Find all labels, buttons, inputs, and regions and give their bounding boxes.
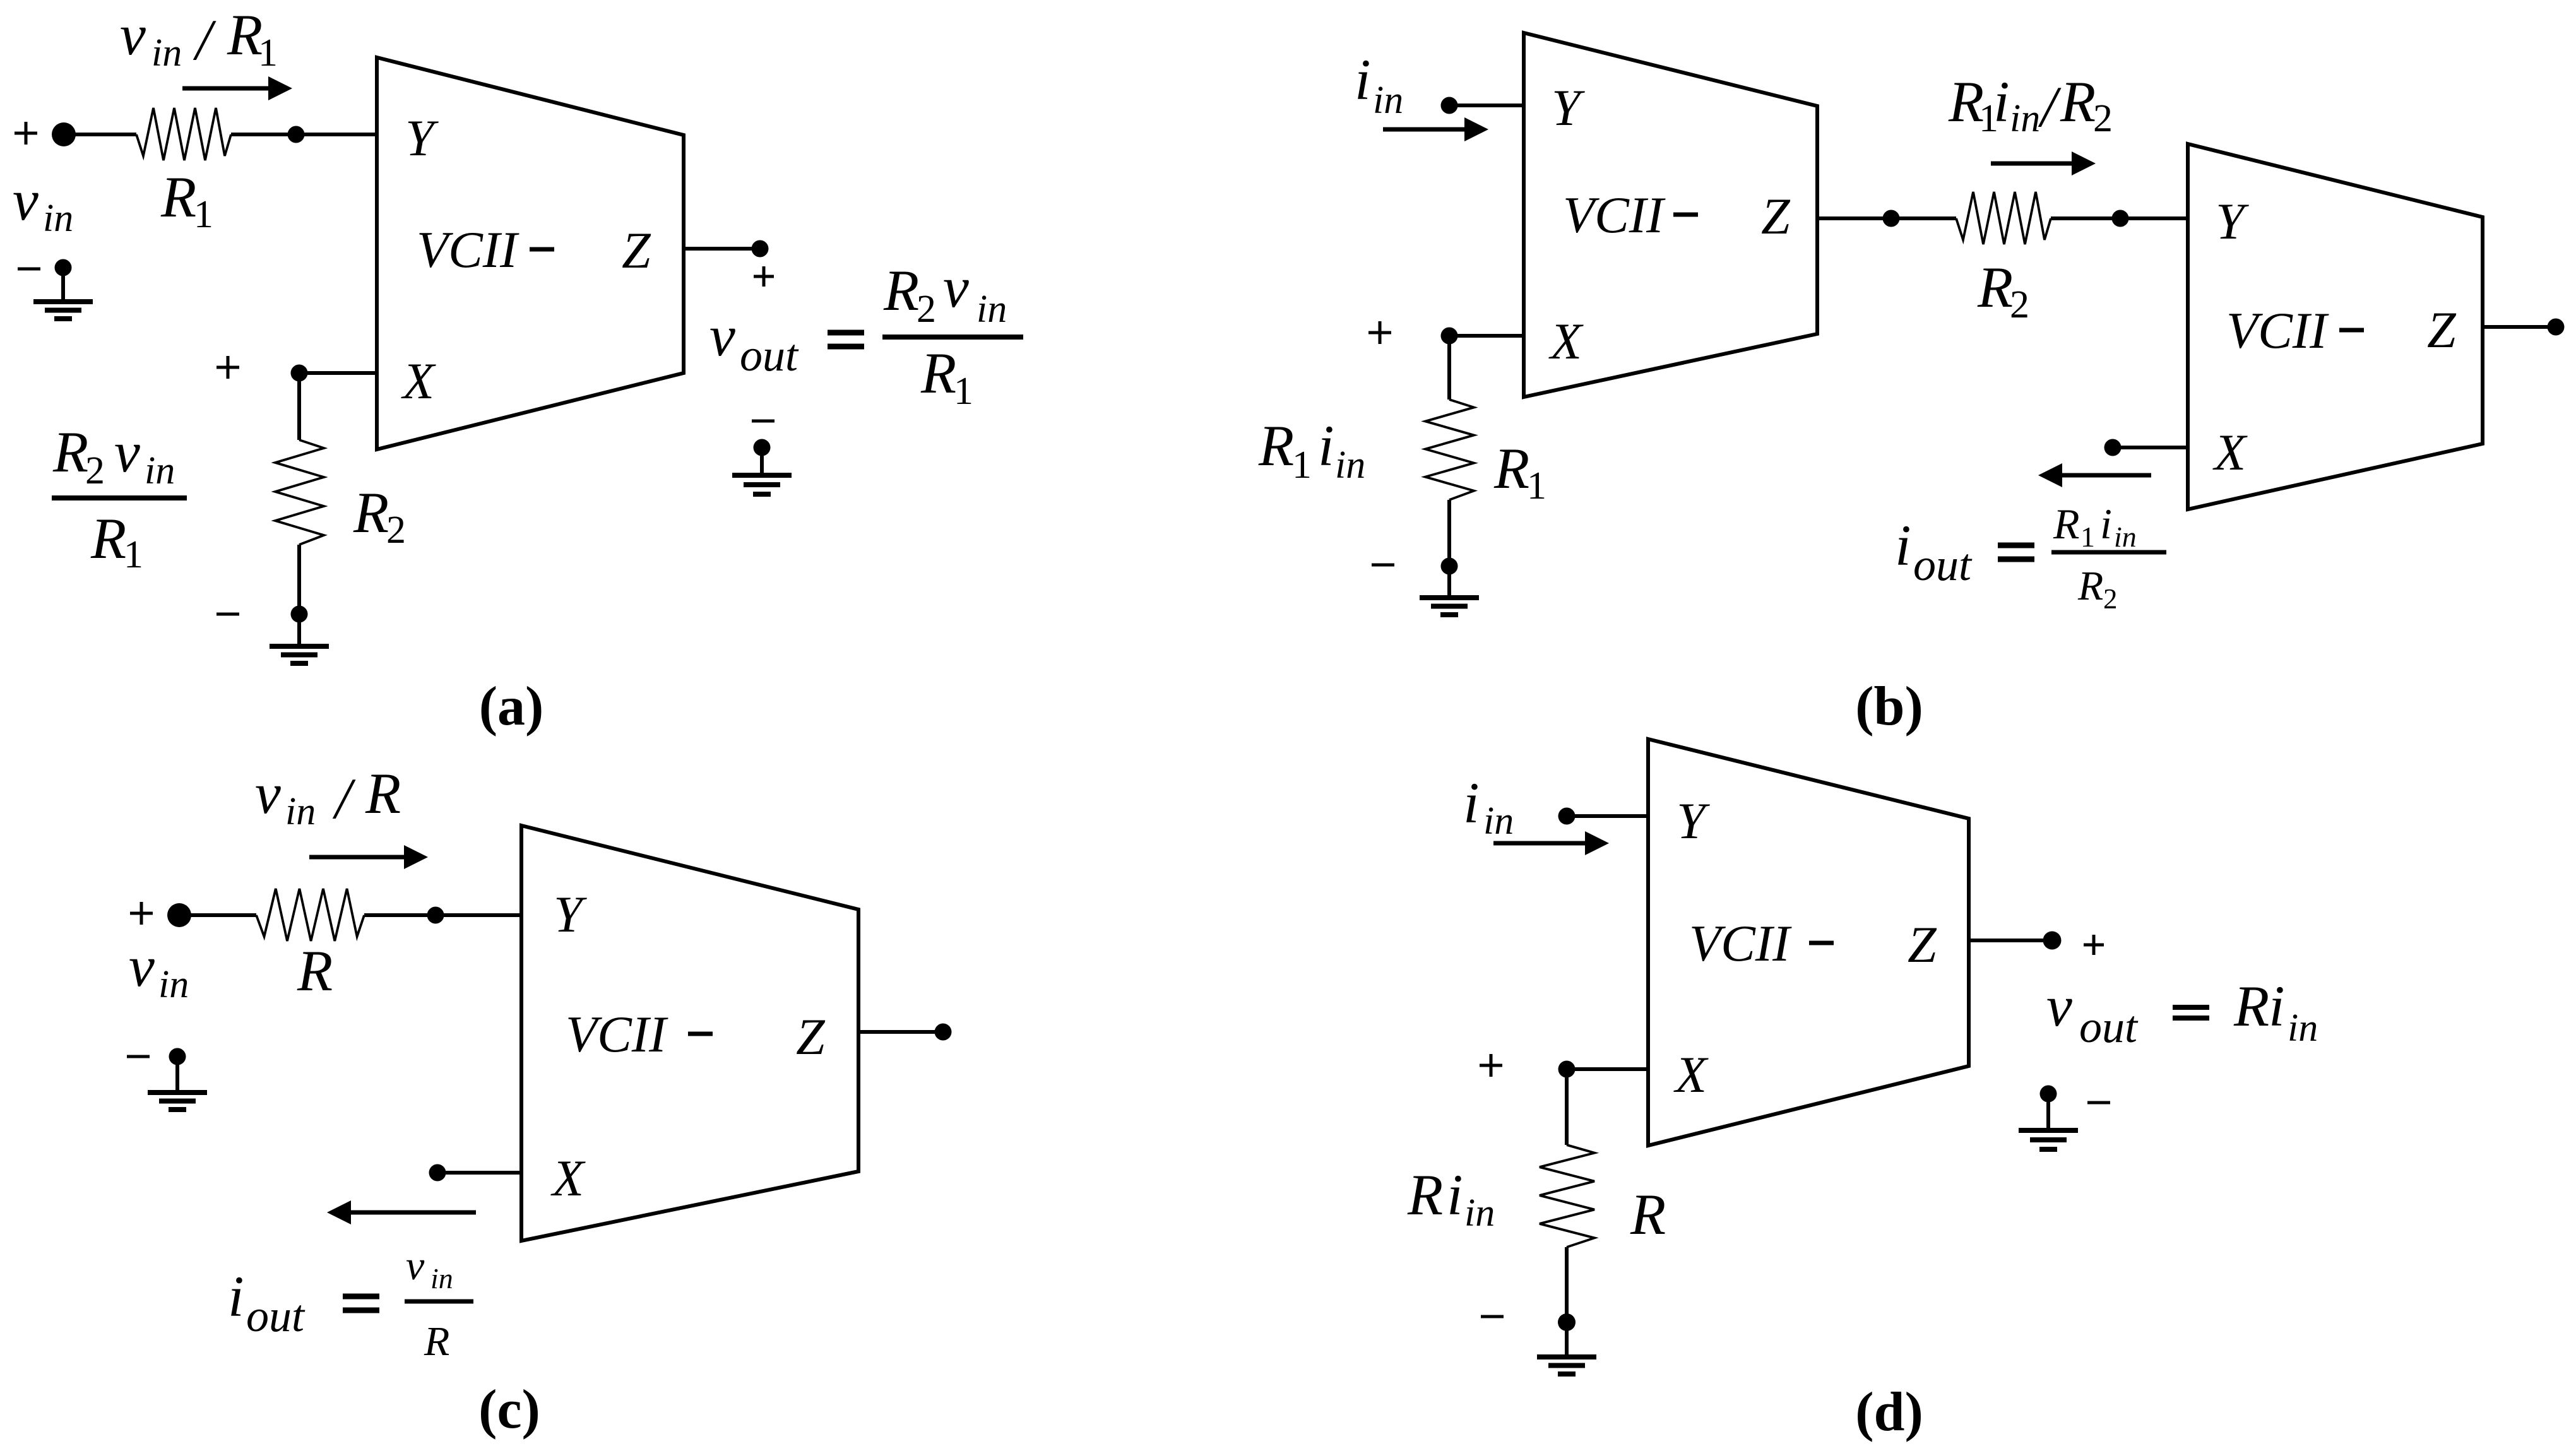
svg-text:in: in bbox=[285, 790, 316, 833]
svg-text:2: 2 bbox=[2093, 97, 2113, 140]
pin label Z (d) bbox=[1908, 916, 1937, 973]
svg-text:i: i bbox=[1318, 413, 1334, 478]
svg-text:Z: Z bbox=[796, 1008, 826, 1065]
svg-text:X: X bbox=[1673, 1046, 1709, 1103]
svg-text:1: 1 bbox=[954, 370, 973, 413]
caption (a) bbox=[479, 676, 544, 737]
svg-text:R: R bbox=[90, 506, 126, 571]
svg-text:1: 1 bbox=[124, 533, 143, 576]
svg-text:1: 1 bbox=[2080, 521, 2095, 553]
node input i_in (b) bbox=[1441, 97, 1524, 114]
wire R1 to Y with junction (a) bbox=[231, 126, 377, 143]
svg-text:in: in bbox=[2114, 521, 2137, 553]
op-amp U3 VCII- trapezoid 2 (b) bbox=[2188, 144, 2483, 509]
minus at R2 bottom (a) bbox=[217, 613, 239, 616]
svg-text:VCII: VCII bbox=[1689, 915, 1792, 972]
svg-text:2: 2 bbox=[85, 449, 105, 492]
svg-text:X: X bbox=[2212, 423, 2248, 481]
svg-text:i: i bbox=[2269, 974, 2285, 1038]
svg-text:i: i bbox=[1447, 1163, 1463, 1227]
wire Z output (a) bbox=[684, 240, 769, 258]
wire R to ground (d) bbox=[1565, 1247, 1569, 1315]
svg-text:in: in bbox=[1335, 444, 1365, 487]
pin label X of U2 (b) bbox=[1548, 312, 1584, 370]
fraction R1 i_in numerator (b) bbox=[2053, 500, 2137, 553]
svg-text:in: in bbox=[430, 1262, 453, 1294]
value label R (c) bbox=[297, 939, 333, 1003]
value label R2 (a) bbox=[353, 480, 406, 552]
svg-text:in: in bbox=[158, 963, 189, 1006]
value label R1 (b) bbox=[1493, 436, 1546, 507]
equals sign (a) bbox=[828, 333, 864, 346]
current arrow into Y (a) bbox=[182, 76, 292, 100]
fraction R denominator (c) bbox=[424, 1318, 449, 1365]
svg-text:out: out bbox=[2079, 1002, 2139, 1052]
block label VCII- U2 (b) bbox=[1563, 186, 1698, 244]
svg-text:X: X bbox=[401, 352, 436, 410]
plus at X branch (d) bbox=[1480, 1054, 1502, 1077]
svg-text:R: R bbox=[227, 3, 263, 67]
svg-text:R: R bbox=[2060, 69, 2096, 134]
value label R (d) bbox=[1630, 1182, 1666, 1247]
svg-text:Z: Z bbox=[2427, 301, 2457, 358]
resistor R2 (b) bbox=[1956, 192, 2051, 244]
svg-text:v: v bbox=[129, 934, 155, 998]
svg-text:i: i bbox=[1463, 771, 1480, 835]
svg-text:(a): (a) bbox=[479, 676, 544, 737]
svg-text:v: v bbox=[709, 304, 735, 368]
pin label Z of U3 (b) bbox=[2427, 301, 2457, 358]
plus at v_out (a) bbox=[754, 266, 774, 287]
svg-text:Z: Z bbox=[622, 222, 651, 279]
resistor R1 (a) bbox=[136, 108, 231, 160]
pin label Z of U2 (b) bbox=[1761, 187, 1791, 245]
svg-text:(c): (c) bbox=[478, 1379, 540, 1440]
pin label Z (a) bbox=[622, 222, 651, 279]
fraction R1 denominator (a) bbox=[920, 341, 973, 413]
svg-text:1: 1 bbox=[1292, 444, 1312, 487]
resistor R2 (a) bbox=[275, 440, 324, 545]
resistor R (d) bbox=[1540, 1145, 1594, 1247]
pin label X (a) bbox=[401, 352, 436, 410]
ground at v_in (a) bbox=[33, 259, 93, 319]
node input terminal v_in+ (c) bbox=[130, 902, 191, 927]
svg-text:R: R bbox=[52, 420, 88, 484]
svg-text:R: R bbox=[2077, 563, 2103, 609]
ground at v_out (a) bbox=[732, 439, 792, 495]
wire R1 to ground (b) bbox=[1447, 500, 1451, 566]
svg-text:in: in bbox=[976, 288, 1007, 331]
voltage label R1 i_in (b) bbox=[1258, 413, 1365, 487]
svg-text:2: 2 bbox=[2010, 283, 2029, 326]
wire Z output (c) bbox=[858, 1024, 952, 1041]
pin label Z (c) bbox=[796, 1008, 826, 1065]
source label i_in (b) bbox=[1355, 47, 1403, 122]
current arrow R1iin/R2 (b) bbox=[1991, 151, 2096, 175]
svg-text:in: in bbox=[1483, 800, 1514, 843]
svg-text:in: in bbox=[145, 449, 175, 492]
source label v_in (c) bbox=[129, 934, 189, 1006]
svg-text:i: i bbox=[228, 1264, 244, 1329]
resistor R1 (b) bbox=[1425, 400, 1474, 500]
caption (d) bbox=[1855, 1382, 1923, 1443]
wire R2 to ground (a) bbox=[297, 545, 301, 614]
plus at X1 (b) bbox=[1368, 321, 1391, 344]
svg-text:v: v bbox=[943, 255, 969, 319]
op-amp U2 VCII- trapezoid 1 (b) bbox=[1524, 33, 1817, 397]
svg-text:v: v bbox=[13, 168, 39, 232]
svg-text:R: R bbox=[2053, 500, 2080, 548]
node A input terminal v_in+ (a) bbox=[15, 122, 76, 146]
voltage label R2vin/R1 left (a) bbox=[52, 420, 187, 576]
svg-text:Y: Y bbox=[554, 885, 587, 943]
source label v_in (a) bbox=[13, 168, 73, 240]
block label VCII- (d) bbox=[1689, 915, 1834, 972]
minus terminal v_in (a) bbox=[18, 268, 40, 271]
wire input to R1 (a) bbox=[64, 133, 136, 136]
minus at R1 bottom (b) bbox=[1372, 564, 1394, 567]
wire X2 out (b) bbox=[2104, 439, 2188, 456]
current label v_in/R (c) bbox=[255, 761, 401, 833]
source label i_in (d) bbox=[1463, 771, 1514, 843]
formula v_out (a) bbox=[709, 304, 799, 381]
svg-text:X: X bbox=[550, 1149, 586, 1207]
current label R1 i_in / R2 (b) bbox=[1948, 69, 2113, 140]
svg-text:R: R bbox=[297, 939, 333, 1003]
equals sign (c) bbox=[343, 1296, 379, 1310]
formula i_out (c) bbox=[228, 1264, 306, 1341]
fraction bar (a) bbox=[882, 335, 1023, 340]
ground below R1 (b) bbox=[1420, 558, 1479, 615]
svg-text:VCII: VCII bbox=[2226, 302, 2329, 359]
svg-text:1: 1 bbox=[258, 32, 278, 74]
svg-text:R: R bbox=[365, 761, 401, 826]
plus at v_out (d) bbox=[2084, 935, 2104, 955]
svg-text:R: R bbox=[920, 341, 956, 405]
svg-text:v: v bbox=[2046, 974, 2072, 1038]
svg-text:R: R bbox=[353, 480, 389, 545]
caption (b) bbox=[1855, 676, 1923, 737]
formula i_out (b) bbox=[1895, 513, 1973, 590]
svg-text:R: R bbox=[424, 1318, 449, 1365]
caption (c) bbox=[478, 1379, 540, 1440]
pin label Y (a) bbox=[405, 109, 439, 167]
equals sign (b) bbox=[1998, 545, 2034, 559]
svg-text:R: R bbox=[1977, 255, 2013, 319]
current arrow i_in (d) bbox=[1493, 831, 1609, 855]
resistor R (c) bbox=[256, 889, 364, 941]
svg-text:R: R bbox=[1407, 1163, 1443, 1227]
minus at output ground (d) bbox=[2087, 1101, 2110, 1105]
current arrow i_in (b) bbox=[1383, 117, 1488, 141]
pin label Y of U2 (b) bbox=[1552, 79, 1585, 136]
formula v_out = Ri_in (d) bbox=[2046, 974, 2318, 1052]
svg-text:in: in bbox=[1464, 1192, 1495, 1235]
wire node down to R2 (a) bbox=[297, 373, 301, 440]
svg-text:in: in bbox=[2288, 1007, 2318, 1050]
svg-text:in: in bbox=[2010, 97, 2040, 140]
svg-text:R: R bbox=[160, 165, 196, 229]
svg-text:Y: Y bbox=[405, 109, 439, 167]
pin label X (d) bbox=[1673, 1046, 1709, 1103]
svg-text:i: i bbox=[1355, 47, 1371, 112]
svg-text:i: i bbox=[1993, 69, 2010, 134]
svg-text:2: 2 bbox=[386, 509, 406, 552]
minus at output ground (a) bbox=[752, 420, 775, 423]
svg-text:(d): (d) bbox=[1855, 1382, 1923, 1443]
current arrow into Y (c) bbox=[309, 845, 428, 869]
svg-text:in: in bbox=[151, 32, 182, 74]
wire R to Y with junction (c) bbox=[364, 907, 521, 924]
svg-text:R: R bbox=[1258, 413, 1294, 478]
ground at v_out (d) bbox=[2019, 1086, 2078, 1150]
svg-text:Z: Z bbox=[1908, 916, 1937, 973]
svg-text:R: R bbox=[1630, 1182, 1666, 1247]
wire X to node (a) bbox=[291, 365, 377, 382]
fraction bar (c) bbox=[405, 1300, 473, 1304]
wire X to node (d) bbox=[1558, 1061, 1649, 1078]
wire node down to R (d) bbox=[1565, 1069, 1569, 1145]
node input i_in (d) bbox=[1558, 808, 1649, 825]
svg-text:out: out bbox=[740, 330, 799, 381]
svg-text:Z: Z bbox=[1761, 187, 1791, 245]
svg-text:Y: Y bbox=[1552, 79, 1585, 136]
value label R1 (a) bbox=[160, 165, 213, 236]
wire Z2 output (b) bbox=[2483, 319, 2565, 336]
svg-text:VCII: VCII bbox=[417, 221, 519, 278]
ground below R (d) bbox=[1537, 1313, 1596, 1374]
pin label Y (d) bbox=[1677, 792, 1710, 850]
op-amp U1 VCII- trapezoid (a) bbox=[377, 57, 684, 449]
wire Z1 to Y2 net (b) bbox=[1817, 210, 2188, 227]
svg-text:R: R bbox=[883, 258, 919, 323]
svg-text:VCII: VCII bbox=[566, 1005, 668, 1063]
svg-text:VCII: VCII bbox=[1563, 186, 1666, 244]
current label v_in/R1 (a) bbox=[120, 3, 278, 74]
wire X out (c) bbox=[429, 1164, 522, 1182]
plus at X branch (a) bbox=[217, 356, 239, 379]
svg-text:R: R bbox=[1493, 436, 1529, 500]
svg-text:v: v bbox=[114, 420, 140, 484]
svg-text:v: v bbox=[255, 761, 281, 826]
block label VCII- (a) bbox=[417, 221, 554, 278]
wire node down to R1 (b) bbox=[1447, 336, 1451, 400]
svg-text:R: R bbox=[2233, 974, 2269, 1038]
block label VCII- U3 (b) bbox=[2226, 302, 2364, 359]
svg-text:in: in bbox=[1373, 79, 1403, 122]
pin label Y of U3 (b) bbox=[2216, 192, 2249, 250]
fraction R2 v_in (a) bbox=[883, 255, 1007, 331]
pin label Y (c) bbox=[554, 885, 587, 943]
fraction bar (b) bbox=[2051, 550, 2166, 555]
svg-text:Y: Y bbox=[2216, 192, 2249, 250]
svg-text:i: i bbox=[2100, 500, 2112, 548]
ground at v_in (c) bbox=[148, 1048, 207, 1110]
block label VCII- (c) bbox=[566, 1005, 713, 1063]
svg-text:X: X bbox=[1548, 312, 1584, 370]
ground below R2 (a) bbox=[270, 606, 329, 664]
wire input to R (c) bbox=[179, 913, 256, 917]
current arrow i_out (c) bbox=[327, 1200, 476, 1224]
svg-text:i: i bbox=[1895, 513, 1911, 577]
minus at R bottom (d) bbox=[1481, 1315, 1504, 1318]
wire X1 to node (b) bbox=[1441, 328, 1524, 345]
svg-text:out: out bbox=[1913, 540, 1973, 590]
svg-text:v: v bbox=[120, 3, 146, 67]
svg-text:in: in bbox=[43, 197, 73, 240]
svg-text:1: 1 bbox=[194, 193, 213, 236]
voltage label Ri_in (d) bbox=[1407, 1163, 1495, 1235]
fraction R2 denominator (b) bbox=[2077, 563, 2118, 615]
wire Z output (d) bbox=[1969, 932, 2062, 950]
op-amp U4 VCII- trapezoid (c) bbox=[521, 826, 858, 1241]
op-amp U5 VCII- trapezoid (d) bbox=[1648, 739, 1969, 1146]
fraction v_in numerator (c) bbox=[406, 1243, 453, 1294]
minus terminal v_in (c) bbox=[127, 1055, 150, 1058]
svg-text:Y: Y bbox=[1677, 792, 1710, 850]
value label R2 (b) bbox=[1977, 255, 2029, 326]
svg-text:1: 1 bbox=[1527, 465, 1546, 507]
svg-text:(b): (b) bbox=[1855, 676, 1923, 737]
pin label X (c) bbox=[550, 1149, 586, 1207]
svg-text:v: v bbox=[406, 1243, 425, 1289]
svg-text:2: 2 bbox=[2103, 583, 2118, 615]
current arrow i_out (b) bbox=[2038, 463, 2151, 487]
pin label X of U3 (b) bbox=[2212, 423, 2248, 481]
svg-text:out: out bbox=[246, 1291, 306, 1341]
svg-text:2: 2 bbox=[917, 288, 936, 331]
